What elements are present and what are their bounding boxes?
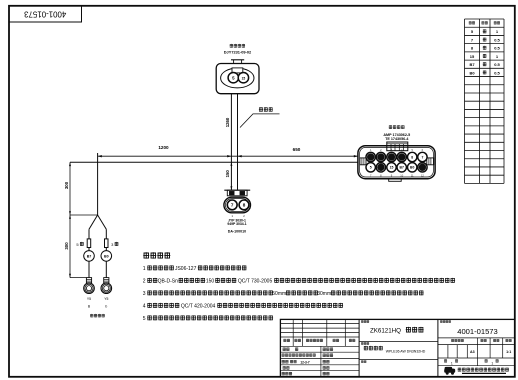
svg-text:0.5: 0.5 xyxy=(494,62,500,67)
X5 pin 7 xyxy=(227,200,237,210)
X6 pin 7 xyxy=(366,163,375,172)
svg-text:8: 8 xyxy=(411,155,413,159)
X6 pin 2 xyxy=(376,152,385,161)
X6 pin 11 xyxy=(408,163,417,172)
Y split xyxy=(89,215,98,229)
X6 pin 1 xyxy=(366,152,375,161)
svg-text:QC/T 420-2004: QC/T 420-2004 xyxy=(181,304,216,310)
svg-text:15: 15 xyxy=(470,54,475,59)
svg-text:B7: B7 xyxy=(469,62,475,67)
ring terminal left xyxy=(86,278,91,283)
connector X5 crimp xyxy=(224,189,250,191)
dim 1260 xyxy=(225,117,230,127)
svg-text:7: 7 xyxy=(231,203,234,208)
svg-text:3: 3 xyxy=(143,291,146,297)
connector X5 body xyxy=(224,197,251,213)
drawing name cell xyxy=(364,346,368,351)
wire list table xyxy=(465,18,505,20)
svg-text:300: 300 xyxy=(64,242,69,250)
branch drop wire xyxy=(97,153,99,215)
svg-text:150: 150 xyxy=(225,170,230,178)
connector X4 label xyxy=(230,44,233,48)
svg-text:15: 15 xyxy=(242,76,246,80)
svg-text:1200: 1200 xyxy=(158,145,169,150)
X6 top latch xyxy=(387,142,408,151)
svg-text:DJY7231-09-02: DJY7231-09-02 xyxy=(224,49,252,54)
svg-text:4001-01573: 4001-01573 xyxy=(24,9,67,18)
X6 pin 6 xyxy=(418,152,427,161)
dim 150 xyxy=(225,170,230,178)
part number box (rotated) xyxy=(9,6,82,22)
svg-text:B7: B7 xyxy=(400,166,404,170)
X6 bottom tab xyxy=(389,179,402,182)
drawing number cell xyxy=(440,320,442,323)
dim line 1200 / 650 xyxy=(98,155,358,157)
svg-text:0.5: 0.5 xyxy=(494,37,500,42)
X4 pin 2 xyxy=(238,73,248,83)
svg-text:12-3-7: 12-3-7 xyxy=(300,360,309,364)
svg-text:30mm: 30mm xyxy=(317,291,331,297)
svg-text:4: 4 xyxy=(143,304,146,310)
svg-text:QB-D-Sn: QB-D-Sn xyxy=(158,279,179,285)
svg-text:A3: A3 xyxy=(470,350,475,354)
X6 pin 9 xyxy=(387,163,396,172)
X6 pin 12 xyxy=(418,163,427,172)
X6 pin 8 xyxy=(376,163,385,172)
leader note tape xyxy=(240,114,280,128)
X6 pin 10 xyxy=(397,163,406,172)
X5 pin 8 xyxy=(239,200,249,210)
company name xyxy=(458,368,462,372)
connector X6 labels xyxy=(389,125,392,129)
svg-text:650: 650 xyxy=(293,147,301,152)
svg-text:150: 150 xyxy=(206,279,215,285)
trunk wire xyxy=(70,161,358,163)
svg-text:WPLE36 AW DN3N32HD: WPLE36 AW DN3N32HD xyxy=(386,350,426,354)
svg-text:B0: B0 xyxy=(104,254,109,258)
dim column 300/300 xyxy=(69,162,71,277)
X6 pin 4 xyxy=(397,152,406,161)
svg-text:1: 1 xyxy=(143,266,146,272)
svg-text:1: 1 xyxy=(451,361,453,365)
marker tubes xyxy=(87,239,91,248)
title block xyxy=(280,319,514,376)
product name cell xyxy=(361,320,363,323)
svg-text:15: 15 xyxy=(390,166,394,170)
svg-text:7: 7 xyxy=(421,155,423,159)
svg-text:8: 8 xyxy=(243,203,246,208)
svg-text:b: b xyxy=(105,305,107,309)
left leg xyxy=(88,229,90,250)
svg-text:300: 300 xyxy=(64,181,69,189)
svg-text:5: 5 xyxy=(370,166,372,170)
wire id B0 xyxy=(101,251,112,262)
connector X4 body xyxy=(231,59,244,61)
svg-text:0.5: 0.5 xyxy=(494,46,500,51)
svg-text:B0: B0 xyxy=(469,70,475,75)
svg-text:QC/T 730-2005: QC/T 730-2005 xyxy=(238,279,273,285)
X6 pin 5 xyxy=(408,152,417,161)
X6 pin 3 xyxy=(387,152,396,161)
svg-text:4001-01573: 4001-01573 xyxy=(457,327,498,336)
svg-text:B7: B7 xyxy=(87,254,92,258)
svg-text:5: 5 xyxy=(143,316,146,322)
wire pair from X4 xyxy=(230,94,232,190)
svg-text:0.5: 0.5 xyxy=(494,70,500,75)
right leg xyxy=(105,229,107,250)
svg-text:1: 1 xyxy=(491,361,493,365)
X4 pin 1 xyxy=(228,73,238,83)
company logo xyxy=(444,367,455,375)
technical requirements title xyxy=(143,252,149,258)
X6 side latches xyxy=(360,158,366,165)
svg-text:949P 3034-1: 949P 3034-1 xyxy=(227,222,246,226)
svg-text:Y5: Y5 xyxy=(104,297,108,301)
ring terminal right xyxy=(104,278,109,283)
svg-text:2: 2 xyxy=(143,279,146,285)
X6 body xyxy=(358,146,435,179)
svg-text:TE 1743056-4: TE 1743056-4 xyxy=(385,137,409,141)
svg-text:50mm: 50mm xyxy=(272,291,286,297)
svg-text:JS06-127: JS06-127 xyxy=(175,266,197,272)
svg-text:1260: 1260 xyxy=(225,117,230,127)
svg-text:B0: B0 xyxy=(410,166,414,170)
svg-text:DA-100010: DA-100010 xyxy=(228,230,246,234)
wire id B7 xyxy=(84,251,95,262)
svg-text:ZK6121HQ: ZK6121HQ xyxy=(370,327,401,334)
svg-text:Y5: Y5 xyxy=(87,297,91,301)
svg-text:1:1: 1:1 xyxy=(506,350,511,354)
